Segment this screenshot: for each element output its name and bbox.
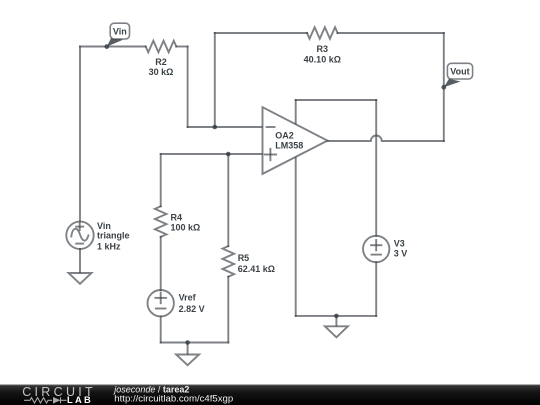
wire Vref bottom lead xyxy=(160,316,162,342)
wire Vin left vertical xyxy=(79,47,81,222)
resistor R4 xyxy=(155,206,167,237)
svg-text:Vref: Vref xyxy=(179,293,197,303)
flag Vin xyxy=(104,23,129,49)
resistor R3 xyxy=(307,27,338,39)
wire supply right vertical lower xyxy=(375,262,377,316)
ground left xyxy=(176,355,199,366)
logo diode triangle xyxy=(53,397,61,404)
svg-text:Vout: Vout xyxy=(450,67,469,77)
wire feedback vertical xyxy=(214,33,216,127)
wire top-left horizontal to R2 xyxy=(80,46,146,48)
junction node bottom-right ground xyxy=(334,314,339,319)
wire ground stub right xyxy=(335,316,337,326)
svg-text:triangle: triangle xyxy=(97,231,130,241)
wire R4 top lead xyxy=(160,154,162,206)
svg-text:LM358: LM358 xyxy=(275,141,303,151)
wire R3 right lead xyxy=(338,32,444,34)
wire R4 bottom lead xyxy=(160,237,162,290)
wire supply top horizontal xyxy=(296,99,377,101)
svg-text:R4: R4 xyxy=(171,213,183,223)
wire R2 right lead xyxy=(176,46,187,48)
svg-text:LAB: LAB xyxy=(67,395,93,405)
svg-text:2.82 V: 2.82 V xyxy=(179,304,205,314)
resistor R5 xyxy=(223,246,235,277)
wire ground stub left xyxy=(187,343,189,355)
wire Vout right vertical xyxy=(443,33,445,141)
wire vertical down to inverting input xyxy=(187,47,189,128)
junction node at inverting input xyxy=(213,125,218,130)
resistor R2 xyxy=(146,41,177,53)
wire op-amp output with hop xyxy=(328,136,444,142)
wire top horizontal to R3 xyxy=(215,32,307,34)
wire supply left vertical (behind op-amp) xyxy=(295,100,297,316)
voltage source Vin (function generator) xyxy=(66,222,93,249)
ground bottom-left xyxy=(69,273,92,284)
junction node bottom-left ground xyxy=(185,340,190,345)
svg-text:1 kHz: 1 kHz xyxy=(97,241,121,251)
wire R5 bottom lead xyxy=(227,277,229,343)
wire R5 top lead xyxy=(227,154,229,246)
svg-text:62.41 kΩ: 62.41 kΩ xyxy=(238,264,275,274)
wire bottom-left horizontal xyxy=(161,342,229,344)
svg-text:V3: V3 xyxy=(394,239,405,249)
svg-text:Vin: Vin xyxy=(97,221,111,231)
svg-text:30 kΩ: 30 kΩ xyxy=(149,67,174,77)
ground right xyxy=(325,326,348,337)
svg-text:100 kΩ: 100 kΩ xyxy=(171,223,201,233)
voltage source Vref xyxy=(148,290,174,316)
svg-text:3 V: 3 V xyxy=(394,249,408,259)
wire inverting input horizontal xyxy=(188,126,263,128)
wire bottom-right horizontal xyxy=(296,315,377,317)
svg-text:R5: R5 xyxy=(238,253,250,263)
logo squiggle resistor-diode xyxy=(24,397,67,403)
svg-text:40.10 kΩ: 40.10 kΩ xyxy=(304,55,341,65)
wire supply right vertical upper xyxy=(375,100,377,236)
voltage source V3 xyxy=(363,236,389,262)
footer bar xyxy=(0,385,540,405)
wire Vin bottom lead xyxy=(79,249,81,273)
svg-text:OA2: OA2 xyxy=(275,130,294,140)
svg-text:R2: R2 xyxy=(155,57,167,67)
junction node at non-inverting input xyxy=(226,152,231,157)
svg-text:R3: R3 xyxy=(317,44,329,54)
wire non-inverting input horizontal xyxy=(161,153,263,155)
svg-text:http://circuitlab.com/c4f5xgp: http://circuitlab.com/c4f5xgp xyxy=(114,393,233,404)
op-amp OA2 xyxy=(263,107,328,174)
svg-text:Vin: Vin xyxy=(113,27,127,37)
flag Vout xyxy=(441,63,472,89)
